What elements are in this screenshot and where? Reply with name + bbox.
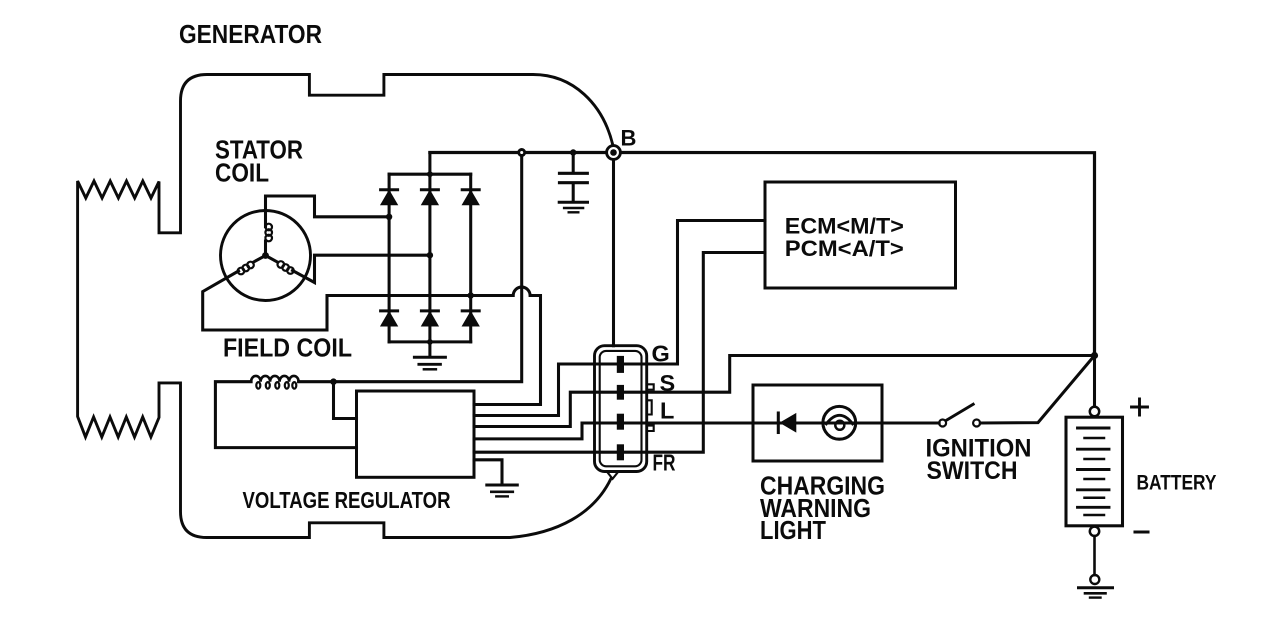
svg-text:L: L xyxy=(660,397,674,423)
svg-text:SWITCH: SWITCH xyxy=(927,457,1018,485)
junction pass-through at bus xyxy=(519,150,525,156)
wire regulator S to connector pin S and battery sense xyxy=(474,356,1095,427)
stator coil circle xyxy=(221,211,311,301)
junction dot field coil tap xyxy=(330,378,337,385)
field coil L1 wire and winding xyxy=(299,380,334,383)
generator case outline with brush zigzags xyxy=(78,75,613,538)
label minus xyxy=(1135,530,1148,533)
wire regulator G to connector pin G and ECM xyxy=(474,221,765,416)
wire regulator L to connector pin L and warning lamp xyxy=(474,423,939,439)
svg-text:BATTERY: BATTERY xyxy=(1137,471,1217,494)
wire field tap to regulator xyxy=(334,382,357,419)
label plus xyxy=(1132,399,1148,415)
diode D4 (lower left) xyxy=(381,309,398,312)
charging warning light box xyxy=(753,385,882,461)
connector inner shell xyxy=(600,351,642,466)
svg-text:VOLTAGE REGULATOR: VOLTAGE REGULATOR xyxy=(243,487,451,513)
ignition switch lever xyxy=(946,404,973,420)
rectifier middle column wire xyxy=(428,153,431,342)
svg-text:S: S xyxy=(660,370,676,396)
connector bottom vee xyxy=(607,472,619,479)
junction dot capacitor tap xyxy=(570,149,576,155)
diode D6 (lower right) xyxy=(462,309,479,312)
connector pin L xyxy=(617,414,624,430)
junction dot phase 2 xyxy=(427,252,433,258)
warning lamp xyxy=(823,406,856,439)
connector latch tab middle xyxy=(647,400,652,414)
rectifier ground xyxy=(428,342,431,357)
connector latch tab lower xyxy=(647,426,654,431)
stator winding phase 3 (lower-right) xyxy=(266,256,278,262)
regulator ground xyxy=(474,460,502,485)
svg-text:B: B xyxy=(621,126,637,151)
svg-text:GENERATOR: GENERATOR xyxy=(179,19,322,49)
battery negative terminal xyxy=(1090,527,1099,536)
capacitor ground xyxy=(559,201,587,204)
stator winding phase 1 (top) xyxy=(264,241,267,256)
junction dot rectifier top rail xyxy=(427,171,433,177)
battery box xyxy=(1066,417,1123,526)
node B terminal xyxy=(607,146,621,160)
voltage regulator box xyxy=(357,391,475,477)
ECM/PCM box xyxy=(765,182,956,288)
wire battery junction down to battery xyxy=(1093,356,1096,407)
connector pin S xyxy=(617,385,624,400)
rectifier bottom rail xyxy=(389,340,471,343)
rectifier right column wire xyxy=(469,174,472,342)
battery positive terminal xyxy=(1090,407,1099,416)
rectifier left column wire xyxy=(388,174,391,342)
diode D3 (upper right) xyxy=(462,188,479,191)
connector outer shell xyxy=(595,346,647,472)
junction dot battery sense node xyxy=(1091,352,1098,359)
capacitor C1 xyxy=(572,153,575,172)
battery plates xyxy=(1078,427,1110,430)
svg-text:PCM<A/T>: PCM<A/T> xyxy=(785,236,904,261)
wire B+ feed down to field coil xyxy=(334,156,522,382)
wire B+ bus (node B to battery corner) xyxy=(614,153,1095,356)
connector pin G xyxy=(617,356,624,373)
diode D1 (upper left) xyxy=(381,188,398,191)
wire stator phase monitor to regulator (hops over B+ feed) xyxy=(471,287,541,404)
battery ground terminal circle xyxy=(1090,575,1099,584)
wire switch to battery junction xyxy=(980,356,1094,424)
ignition switch contact right xyxy=(973,420,980,427)
connector latch tab upper xyxy=(647,384,654,389)
wire battery negative to ground xyxy=(1093,536,1096,575)
svg-text:FR: FR xyxy=(653,450,676,476)
svg-text:FIELD COIL: FIELD COIL xyxy=(223,333,352,363)
junction dot phase 3 xyxy=(468,292,474,298)
junction dot rectifier bottom rail xyxy=(427,339,433,345)
rectifier top rail xyxy=(389,173,471,176)
stator winding phase 2 (lower-left) xyxy=(254,256,266,262)
diode D2 (upper middle) xyxy=(421,188,438,191)
connector pin FR xyxy=(617,444,624,460)
ignition switch contact left xyxy=(939,420,946,427)
svg-text:LIGHT: LIGHT xyxy=(760,517,826,545)
svg-text:COIL: COIL xyxy=(215,158,269,188)
junction dot phase 1 xyxy=(386,214,392,220)
svg-text:ECM<M/T>: ECM<M/T> xyxy=(785,214,904,239)
wire node B down to connector xyxy=(612,160,615,346)
diode D7 in lamp circuit xyxy=(777,413,780,433)
svg-text:G: G xyxy=(652,341,670,367)
wire regulator FR to connector pin FR and ECM xyxy=(474,253,765,453)
stator neutral junction xyxy=(262,252,269,259)
diode D5 (lower middle) xyxy=(421,309,438,312)
battery ground xyxy=(1079,586,1113,589)
wire B+ bus (node B to rectifier) xyxy=(430,151,614,154)
